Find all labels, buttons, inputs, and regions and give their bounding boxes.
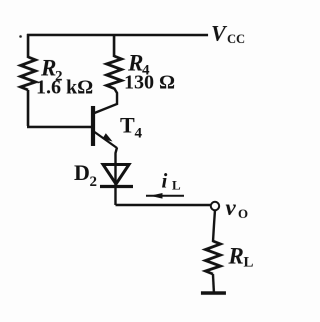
svg-text:L: L [172,178,181,193]
svg-text:i: i [161,169,167,193]
wire vo down [213,210,215,242]
wire collector path [95,88,118,113]
svg-text:1.6 kΩ: 1.6 kΩ [36,76,93,98]
svg-text:T: T [120,112,135,137]
wire iL arrow [146,195,184,197]
wire emitter to diode and through diode down [115,147,117,205]
svg-text:2: 2 [89,174,97,190]
resistor R4 [107,56,122,89]
svg-text:L: L [243,255,253,271]
ground [201,291,226,294]
wire left vertical top [27,34,30,58]
diode D2 [103,164,129,184]
svg-text:R: R [227,244,243,269]
speck artifact left of rail corner [19,35,22,38]
wire base horizontal [27,126,91,129]
svg-text:O: O [238,206,248,221]
svg-text:130 Ω: 130 Ω [124,71,175,93]
svg-text:v: v [225,195,236,220]
svg-text:CC: CC [227,32,245,46]
wire left vertical bottom [27,90,30,126]
svg-text:V: V [211,21,228,46]
node vo terminal [211,202,219,210]
transistor T4 emitter with arrow [95,132,118,148]
svg-text:4: 4 [135,125,143,141]
wire RL to ground [213,274,214,293]
svg-text:D: D [74,160,90,185]
resistor R2 [21,57,36,90]
wire R4 top vertical [113,34,116,57]
transistor T4 base bar [91,106,95,146]
resistor RL [205,241,220,274]
wire Vcc top rail [27,34,208,37]
wire bottom horizontal [115,204,210,206]
